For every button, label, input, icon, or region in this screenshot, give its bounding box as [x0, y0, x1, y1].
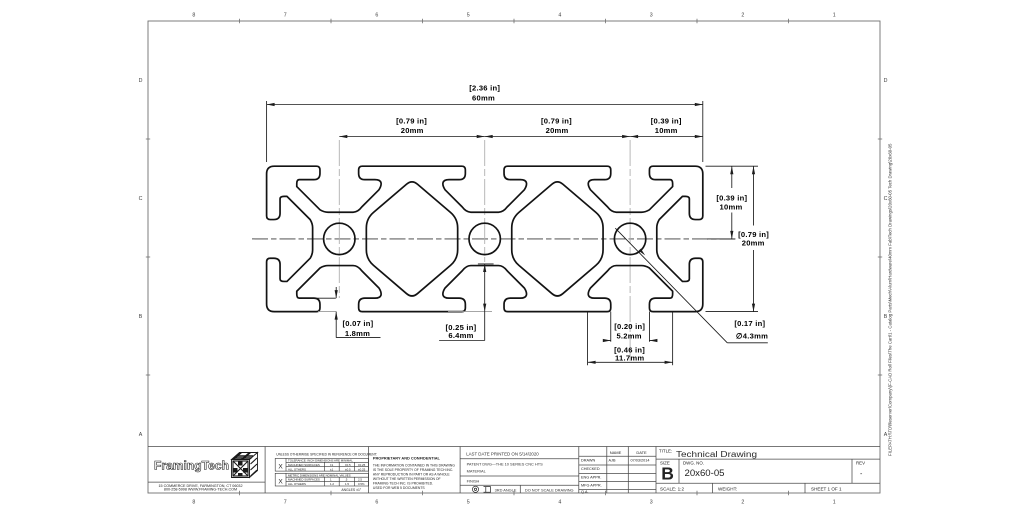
svg-text:D: D — [884, 78, 888, 84]
svg-text:[2.36 in]: [2.36 in] — [469, 84, 500, 93]
svg-text:DATE: DATE — [636, 450, 647, 455]
svg-text:20mm: 20mm — [742, 239, 765, 248]
svg-text:2.5: 2.5 — [358, 478, 362, 482]
svg-text:20x60-05: 20x60-05 — [685, 468, 725, 479]
svg-text:8: 8 — [192, 13, 195, 19]
svg-text:ANY REPRODUCTION IN PART OR AS: ANY REPRODUCTION IN PART OR AS A WHOLE — [373, 472, 451, 476]
svg-text:PROPRIETARY AND CONFIDENTIAL: PROPRIETARY AND CONFIDENTIAL — [373, 455, 441, 460]
svg-text:4: 4 — [558, 500, 561, 506]
svg-text:FILEPATH:\\TD\fileserver\Compa: FILEPATH:\\TD\fileserver\Company\(F-CAD … — [888, 143, 893, 456]
svg-text:DRAWN: DRAWN — [581, 459, 595, 463]
vertical centerline hole 2 — [484, 140, 486, 262]
svg-text:2: 2 — [741, 500, 744, 506]
leader diameter 4.3mm hole callout — [615, 228, 768, 343]
svg-text:3: 3 — [650, 500, 653, 506]
svg-text:CHECKED: CHECKED — [581, 467, 600, 471]
svg-text:[0.07 in]: [0.07 in] — [343, 319, 374, 328]
svg-text:5: 5 — [467, 13, 470, 19]
svg-text:±0.5: ±0.5 — [345, 463, 351, 467]
svg-text:1.2: 1.2 — [330, 482, 334, 486]
svg-text:IS THE SOLE PROPERTY OF FRAMIN: IS THE SOLE PROPERTY OF FRAMING TECH INC… — [373, 468, 453, 472]
svg-text:C: C — [139, 196, 143, 202]
svg-text:±0.25: ±0.25 — [358, 467, 366, 471]
svg-text:X: X — [278, 464, 283, 471]
svg-text:B: B — [139, 314, 143, 320]
svg-text:Q.A.: Q.A. — [581, 490, 589, 494]
svg-text:MACHINED SURFACES: MACHINED SURFACES — [288, 478, 320, 482]
dimension 60mm overall width — [267, 101, 703, 162]
svg-text:WEIGHT:: WEIGHT: — [718, 486, 737, 491]
svg-text:Technical Drawing: Technical Drawing — [676, 450, 757, 459]
svg-text:6.4mm: 6.4mm — [448, 331, 473, 340]
proprietary notice — [373, 455, 455, 489]
svg-text:8: 8 — [192, 500, 195, 506]
svg-text:[0.79 in]: [0.79 in] — [541, 117, 572, 126]
svg-text:1: 1 — [833, 500, 836, 506]
vertical centerline hole 1 — [338, 140, 340, 298]
dimension 10mm end — [630, 136, 703, 138]
svg-text:.5: .5 — [345, 478, 348, 482]
svg-text:[0.39 in]: [0.39 in] — [651, 117, 682, 126]
dimension 20mm pitch 1 — [339, 136, 484, 138]
svg-text:5: 5 — [467, 500, 470, 506]
svg-text:1: 1 — [833, 13, 836, 19]
dimension 10mm vertical right — [706, 166, 759, 239]
svg-text:USED FOR WEB 5 DOCUMENTS: USED FOR WEB 5 DOCUMENTS — [373, 486, 426, 490]
hole 1 — [324, 223, 355, 254]
svg-text:TITLE:: TITLE: — [659, 449, 672, 454]
svg-text:ENG APPR.: ENG APPR. — [581, 476, 601, 480]
svg-text:[0.17 in]: [0.17 in] — [734, 319, 765, 328]
extrusion profile outline with T-slots — [267, 166, 703, 311]
third angle projection symbol — [472, 486, 490, 492]
svg-text:REV: REV — [856, 461, 865, 466]
svg-text:FINISH: FINISH — [467, 478, 480, 483]
svg-text:7: 7 — [284, 500, 287, 506]
svg-text:[0.79 in]: [0.79 in] — [396, 117, 427, 126]
svg-text:MFG APPR.: MFG APPR. — [581, 484, 602, 488]
svg-text:∅4.3mm: ∅4.3mm — [736, 331, 768, 340]
svg-text:60mm: 60mm — [472, 93, 495, 102]
dimension 1.8mm lip thickness — [302, 287, 381, 338]
svg-text:11.7mm: 11.7mm — [615, 353, 644, 362]
svg-text:20mm: 20mm — [546, 126, 569, 135]
svg-text:PATENT DWG—THE 10 SERIES CNC H: PATENT DWG—THE 10 SERIES CNC HTS — [467, 461, 543, 466]
svg-text:WITHOUT THE WRITTEN PERMISSION: WITHOUT THE WRITTEN PERMISSION OF — [373, 477, 441, 481]
svg-text:X: X — [278, 478, 283, 485]
svg-text:±0.25: ±0.25 — [358, 463, 366, 467]
svg-text:±1: ±1 — [330, 467, 334, 471]
svg-text:07/03/2014: 07/03/2014 — [630, 459, 649, 463]
svg-text:SCALE: 1:2: SCALE: 1:2 — [660, 486, 684, 491]
svg-text:10mm: 10mm — [655, 126, 678, 135]
svg-text:B: B — [661, 464, 674, 484]
svg-text:±0.5: ±0.5 — [345, 467, 351, 471]
svg-text:MACHINED SURFACES: MACHINED SURFACES — [288, 463, 320, 467]
svg-text:[0.39 in]: [0.39 in] — [716, 193, 747, 202]
svg-text:0.5%: 0.5% — [358, 482, 365, 486]
svg-text:1.5: 1.5 — [345, 482, 349, 486]
svg-text:5.2mm: 5.2mm — [616, 331, 641, 340]
dimension 6.4mm slot depth — [439, 264, 494, 341]
svg-text:3RD ANGLE: 3RD ANGLE — [495, 487, 517, 492]
svg-text:6: 6 — [375, 500, 378, 506]
svg-text:MATERIAL: MATERIAL — [467, 469, 487, 474]
svg-text:3: 3 — [650, 13, 653, 19]
svg-text:2: 2 — [741, 13, 744, 19]
svg-text:ANGLES ±1°: ANGLES ±1° — [341, 488, 361, 492]
svg-text:A: A — [139, 432, 143, 438]
svg-text:6: 6 — [375, 13, 378, 19]
svg-text:SHEET 1 OF 1: SHEET 1 OF 1 — [811, 486, 842, 491]
svg-text:DWG. NO.: DWG. NO. — [683, 461, 704, 466]
svg-text:NAME: NAME — [610, 450, 622, 455]
logo cube icon — [232, 453, 258, 478]
svg-text:10mm: 10mm — [720, 203, 743, 212]
dimension 20mm vertical right — [706, 166, 759, 311]
svg-text:THE INFORMATION CONTAINED IN T: THE INFORMATION CONTAINED IN THIS DRAWIN… — [373, 463, 455, 467]
diamond cavity 2 — [512, 182, 603, 296]
zone labels — [139, 13, 888, 506]
svg-text:20mm: 20mm — [401, 126, 424, 135]
svg-text:LAST DATE PRINTED ON 5/14/2020: LAST DATE PRINTED ON 5/14/2020 — [466, 451, 539, 456]
border frame — [148, 21, 880, 493]
svg-text:FRAMING TECH INC. IS PROHIBITE: FRAMING TECH INC. IS PROHIBITED. — [373, 481, 433, 485]
svg-text:800-258-5998 WWW.FRAMING-TEC: 800-258-5998 WWW.FRAMING-TECH.COM — [164, 488, 237, 492]
zone ticks — [146, 19, 882, 495]
svg-text:1.8mm: 1.8mm — [345, 329, 370, 338]
svg-text:D: D — [139, 78, 143, 84]
diamond cavity 1 — [366, 182, 457, 296]
svg-text:4: 4 — [558, 13, 561, 19]
svg-text:[0.20 in]: [0.20 in] — [614, 322, 645, 331]
svg-text:ALL OTHERS: ALL OTHERS — [288, 482, 306, 486]
svg-text:ALL OTHERS: ALL OTHERS — [288, 467, 306, 471]
svg-text:7: 7 — [284, 13, 287, 19]
tolerance block — [275, 453, 377, 493]
dimension 5.2mm slot mouth — [603, 312, 657, 342]
svg-text:FramingTech: FramingTech — [154, 461, 229, 473]
horizontal centerline through holes — [252, 238, 735, 240]
svg-text:±1: ±1 — [330, 463, 334, 467]
svg-text:AJB: AJB — [609, 459, 616, 463]
svg-text:DO NOT SCALE DRAWING: DO NOT SCALE DRAWING — [525, 487, 574, 492]
title block lines — [148, 447, 880, 494]
title block text — [466, 449, 865, 494]
dimension 11.7mm slot width — [588, 312, 673, 366]
hole 2 — [469, 223, 500, 254]
vertical centerline hole 3 — [629, 140, 631, 362]
svg-text:UNLESS OTHERWISE SPECIFIED IN: UNLESS OTHERWISE SPECIFIED IN REFERENCE … — [276, 453, 377, 457]
dimension 20mm pitch 2 — [485, 136, 630, 138]
hole 3 — [614, 223, 645, 254]
